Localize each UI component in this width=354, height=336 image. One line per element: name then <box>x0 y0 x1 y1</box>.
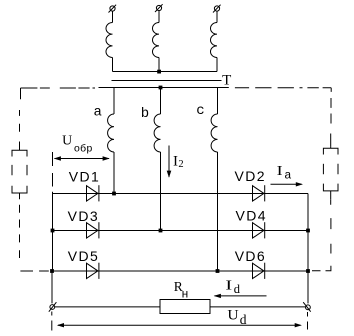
primary winding L3 <box>210 23 217 58</box>
terminal output right <box>303 302 311 312</box>
junction left bus / row 3 <box>50 269 54 273</box>
dashed border right vertical upper <box>330 88 333 146</box>
secondary winding b <box>154 114 160 152</box>
wire winding c to row 3 <box>217 152 219 271</box>
phantom load box left <box>12 145 27 199</box>
svg-text:VD3: VD3 <box>68 208 99 224</box>
terminal primary phase 3 <box>213 5 221 13</box>
dashed lead below left terminal <box>51 312 53 331</box>
arrow Id <box>214 294 267 298</box>
label Ud <box>227 308 246 328</box>
wire primary 1 top <box>112 11 114 22</box>
diode VD4 <box>253 222 265 238</box>
dashed border left vertical upper <box>20 88 21 145</box>
wire primary 1 bottom <box>112 58 114 72</box>
diode VD6 <box>253 263 265 279</box>
dashed border bottom right return <box>312 266 331 271</box>
junction winding a / row 1 <box>112 192 116 196</box>
terminal primary phase 2 <box>155 4 163 12</box>
wire winding b to row 2 <box>160 152 162 231</box>
svg-text:н: н <box>182 288 189 301</box>
wire left bus to output terminal <box>51 271 53 303</box>
wire rectifier row 1 <box>53 193 309 195</box>
dashed border bottom left return <box>20 270 48 272</box>
secondary winding a <box>108 114 114 152</box>
arrow Ud double-headed <box>57 323 302 327</box>
label Ia <box>277 164 292 183</box>
phantom load box right <box>323 146 338 199</box>
diode VD1 <box>87 185 99 201</box>
wire right anode bus <box>307 194 309 304</box>
svg-text:U: U <box>62 133 72 148</box>
wire rectifier row 2 <box>53 230 309 232</box>
junction winding b / row 2 <box>159 229 163 233</box>
wire terminal to load <box>55 306 160 308</box>
svg-text:I: I <box>277 164 283 179</box>
secondary winding c <box>211 114 217 152</box>
arrow I2 <box>167 146 172 178</box>
arrow Ia <box>271 182 304 186</box>
svg-text:T: T <box>222 73 231 89</box>
junction secondary neutral <box>159 86 163 90</box>
label I2 <box>173 153 184 170</box>
terminal output left <box>49 302 57 312</box>
svg-text:VD2: VD2 <box>235 168 266 184</box>
dashed lead below right terminal <box>307 312 309 330</box>
diode VD2 <box>253 185 265 201</box>
wire primary common bus <box>113 71 218 73</box>
diode VD5 <box>87 263 99 279</box>
wire primary 3 top <box>216 11 218 22</box>
svg-text:I: I <box>225 278 232 293</box>
dashed border top right <box>235 87 331 89</box>
wire stub winding a <box>113 88 115 115</box>
svg-text:U: U <box>227 308 238 324</box>
svg-text:a: a <box>94 105 102 121</box>
dashed border top left <box>21 87 96 89</box>
svg-text:обр: обр <box>74 143 93 156</box>
arrow Uobr double-headed <box>54 156 110 160</box>
label RH <box>174 279 189 301</box>
dashed lead left of Uobr <box>52 152 54 194</box>
wire rectifier row 3 <box>52 270 308 272</box>
svg-text:VD5: VD5 <box>68 248 99 264</box>
svg-text:d: d <box>234 282 241 296</box>
dashed border right vertical lower <box>330 199 332 253</box>
transformer core line <box>112 80 222 82</box>
junction winding c / row 3 <box>216 269 220 273</box>
svg-text:I: I <box>173 153 178 169</box>
wire primary 2 bottom <box>158 58 160 72</box>
svg-text:VD1: VD1 <box>69 169 100 185</box>
terminal primary phase 1 <box>109 5 117 13</box>
wire load to right terminal <box>210 306 305 308</box>
primary winding L2 <box>152 23 159 58</box>
svg-text:2: 2 <box>178 159 183 170</box>
wire primary 2 top <box>158 11 160 23</box>
label Uobr <box>62 133 93 156</box>
primary winding L1 <box>106 23 113 58</box>
junction left bus / row 2 <box>51 229 55 233</box>
wire stub winding b <box>160 88 162 115</box>
junction right bus / row 2 <box>306 229 310 233</box>
junction right bus / row 3 <box>306 269 310 273</box>
wire stub winding c <box>217 88 219 115</box>
wire winding a to row 1 <box>113 152 115 194</box>
label Id <box>225 278 240 296</box>
wire left cathode bus <box>52 194 54 272</box>
diode VD3 <box>87 222 99 238</box>
svg-text:c: c <box>196 103 204 119</box>
wire secondary common bus <box>99 87 229 89</box>
dashed border left vertical lower <box>19 205 21 258</box>
svg-text:b: b <box>141 106 149 122</box>
wire primary 3 bottom <box>216 58 218 72</box>
junction primary neutral <box>157 70 161 74</box>
svg-text:a: a <box>284 169 291 183</box>
svg-text:VD6: VD6 <box>235 248 266 264</box>
svg-text:VD4: VD4 <box>236 208 267 224</box>
resistor RH <box>160 300 210 314</box>
